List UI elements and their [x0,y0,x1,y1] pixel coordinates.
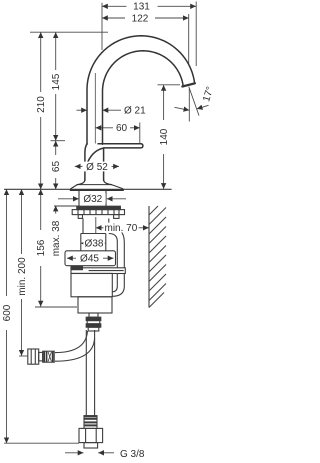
svg-text:min. 200: min. 200 [17,257,28,296]
svg-text:156: 156 [36,239,47,256]
valve cylinder [71,273,112,296]
bottom hose crimp [84,416,97,429]
bottom connector stack [89,313,98,317]
svg-text:140: 140 [159,128,170,145]
dim 600 line [6,189,8,443]
down hose walls [85,330,87,416]
spout outer wall arc [87,36,195,144]
dim O52 line [75,165,119,167]
ext line lever edge for dim 60 [139,123,141,144]
svg-text:Ø32: Ø32 [83,194,102,205]
shaft below flange [82,218,84,233]
spout axis line [94,73,96,144]
bottom hex nut G38 [79,428,103,442]
dim O38 line [81,242,106,244]
wall hatching [149,206,166,308]
svg-text:Ø38: Ø38 [85,239,104,250]
svg-text:Ø 21: Ø 21 [124,106,146,117]
spout outlet face [182,83,195,86]
side connector neck [39,352,43,361]
17deg right arrow [197,105,209,109]
hose elbow to down pipe [109,227,125,242]
svg-text:131: 131 [133,2,150,13]
svg-text:145: 145 [51,73,62,90]
svg-text:min. 70: min. 70 [105,223,138,234]
base skirt [70,185,123,191]
svg-text:Ø45: Ø45 [80,254,99,265]
wall face line [148,206,150,308]
side connector hex nut [28,349,39,364]
svg-text:G 3/8: G 3/8 [120,449,145,460]
dim O21 arrows [77,109,122,111]
svg-text:210: 210 [36,96,47,113]
flange screw tabs [78,215,82,219]
dim 140 line [163,85,165,189]
svg-text:60: 60 [116,123,128,134]
mounting nut dark bar [77,206,121,209]
17deg angled ref line [189,87,199,116]
svg-text:Ø 52: Ø 52 [86,162,108,173]
shaft joint line [81,233,106,235]
dim 131 line [102,5,196,7]
dim min200 line [21,189,23,355]
bottom thread stub [84,443,98,448]
top horizontal ext line [30,31,108,33]
dim G38 arrows [65,452,114,454]
dim 60 line [96,127,140,129]
ext line 600 bottom [4,442,79,444]
ext line left of 131/122 [101,3,103,50]
mounting flange [72,210,124,215]
ext line 140 top [158,84,181,86]
down pipe right of body [116,242,118,287]
dim 156 line [40,189,42,306]
dim 210 line [40,32,42,189]
dim 122 line [102,17,189,19]
faucet body walls [85,144,87,181]
dim max38 arrow under slab [55,206,57,214]
electronics body O45 [65,251,116,266]
down pipe bottom elbow into body [112,287,124,297]
dim 145 line [55,32,57,141]
ext line right 131 [195,2,197,67]
svg-text:65: 65 [51,161,62,173]
shaft through countertop [78,190,80,206]
lever handle [88,144,143,162]
bracket plate under body [71,268,125,274]
dim 65 line [55,141,57,190]
17deg vertical ref line [188,89,190,122]
base cone [77,180,111,185]
svg-text:122: 122 [132,13,149,24]
valve collar [78,297,112,313]
countertop underside line [54,205,79,207]
spout inner wall arc [103,51,184,144]
O38 shaft section [80,234,82,251]
17deg left arrow [175,107,190,110]
left hose curve [55,331,88,353]
svg-text:17°: 17° [201,85,216,103]
dim O32 arrows [58,198,126,200]
ext line 156 bottom [35,306,77,308]
svg-text:600: 600 [2,304,13,321]
svg-text:max. 38: max. 38 [51,220,62,256]
dim O45 line [67,257,114,259]
dim min70 line [96,217,149,234]
ext tick min200 [19,355,28,357]
base cone joint line [77,184,111,186]
ext tick at 145/65 junction [51,140,66,142]
ext line right 122 [188,14,190,64]
side connector crimp [43,351,55,362]
deck / countertop top line [4,188,172,190]
